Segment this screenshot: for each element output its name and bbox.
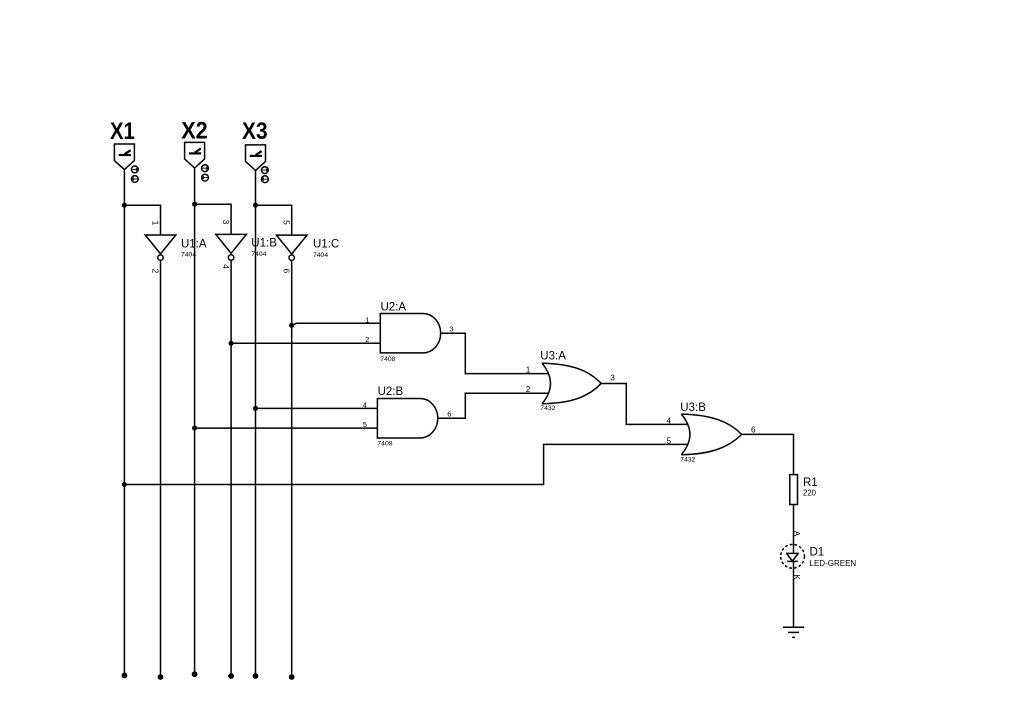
svg-text:A: A: [792, 531, 802, 537]
wire X2 to U2:B pin5: [195, 427, 378, 429]
node U1:B output bottom end: [228, 673, 234, 679]
pin 1 of U1:A: [150, 221, 160, 226]
svg-text:5: 5: [363, 420, 367, 429]
svg-text:U3:A: U3:A: [540, 350, 566, 362]
OR gate U3:B: [681, 414, 741, 455]
svg-text:R1: R1: [803, 477, 818, 489]
logic toggle X2 label: [181, 118, 208, 145]
svg-text:X1: X1: [110, 118, 135, 145]
node X3 branch to U1:C: [253, 203, 258, 208]
svg-text:7404: 7404: [181, 252, 196, 259]
wire U1:A output vertical: [160, 261, 162, 677]
svg-text:4: 4: [667, 417, 672, 426]
pin 6 of U1:C: [282, 269, 292, 274]
node U1:A output bottom end: [158, 674, 164, 680]
node X2 branch to U2:B pin5: [192, 426, 197, 431]
pin 5 of U3:B: [667, 437, 672, 446]
value 7432 of U3:A: [540, 405, 555, 412]
wire U3:A output to U3:B pin4: [601, 383, 688, 424]
svg-text:2: 2: [526, 385, 531, 394]
inverter U1:A: [145, 235, 176, 260]
toggle X2 down button: [202, 174, 209, 181]
node X2 bottom end: [192, 671, 198, 677]
wire R1 to D1: [793, 505, 795, 545]
svg-text:5: 5: [667, 437, 672, 446]
node X2 branch to U1:B: [192, 202, 197, 207]
svg-text:LED-GREEN: LED-GREEN: [810, 559, 857, 568]
svg-text:2: 2: [150, 269, 160, 274]
pin 2 of U3:A: [526, 385, 531, 394]
value 7404 of U1:B: [251, 251, 266, 258]
svg-text:2: 2: [365, 335, 369, 344]
svg-text:3: 3: [449, 324, 453, 333]
svg-text:6: 6: [447, 409, 451, 418]
svg-text:3: 3: [610, 374, 615, 383]
svg-text:D1: D1: [810, 547, 825, 559]
svg-text:X2: X2: [181, 118, 208, 145]
pin 3 of U1:B: [221, 220, 231, 225]
value 7404 of U1:C: [313, 252, 328, 259]
pin 1 of U3:A: [526, 365, 531, 374]
toggle X2 up button: [202, 165, 209, 172]
label U1:A: [181, 238, 207, 250]
value 7408 of U2:A: [380, 356, 395, 363]
svg-text:U2:B: U2:B: [378, 386, 404, 398]
svg-text:U2:A: U2:A: [381, 301, 407, 313]
label U2:B: [378, 386, 404, 398]
svg-text:220: 220: [803, 489, 817, 498]
wire X2 to U1:B input: [195, 204, 232, 234]
wire X1 to U1:A input: [124, 205, 160, 235]
node X3 branch to U2:B pin4: [253, 406, 258, 411]
wire U1:C output vertical: [291, 261, 293, 677]
svg-text:7408: 7408: [377, 440, 392, 447]
pin K label of D1: [792, 574, 802, 580]
svg-text:6: 6: [282, 269, 292, 274]
pin 4 of U2:B: [363, 401, 367, 410]
pin 4 of U1:B: [221, 264, 231, 269]
pin 6 of U3:B: [751, 425, 756, 434]
pin 2 of U1:A: [150, 269, 160, 274]
wire X3 vertical: [255, 171, 257, 677]
value 220 of R1: [803, 489, 817, 498]
logic toggle X1 symbol: [114, 144, 134, 170]
node U1:C output bottom end: [289, 674, 295, 680]
svg-text:6: 6: [751, 425, 756, 434]
pin 5 of U2:B: [363, 420, 367, 429]
resistor R1: [790, 475, 798, 505]
logic toggle X3 symbol: [246, 145, 266, 171]
wire X3 to U1:C input: [256, 205, 292, 235]
node X3 bottom end: [253, 673, 259, 679]
node junction on U1:B output for U2:A pin2: [229, 341, 234, 346]
svg-text:7404: 7404: [251, 251, 266, 258]
label R1: [803, 477, 818, 489]
wire U1:C output to U2:A pin1: [292, 323, 381, 325]
svg-text:7408: 7408: [380, 356, 395, 363]
node junction on U1:C output for U2:A pin1: [289, 323, 294, 328]
svg-text:U1:B: U1:B: [251, 237, 277, 249]
svg-text:1: 1: [365, 316, 369, 325]
label U1:C: [313, 238, 339, 250]
wire U2:A output to U3:A pin1: [441, 333, 549, 373]
toggle X1 down button: [131, 176, 138, 183]
pin 3 of U2:A: [449, 324, 453, 333]
wire X1 vertical: [123, 170, 125, 676]
toggle X3 up button: [262, 167, 269, 174]
logic toggle X3 label: [242, 118, 268, 145]
value LED-GREEN of D1: [810, 559, 857, 568]
svg-text:U1:C: U1:C: [313, 238, 339, 250]
node X1 branch to U3:B pin5 wire: [122, 482, 127, 487]
pin 5 of U1:C: [282, 220, 292, 225]
pin 3 of U3:A: [610, 374, 615, 383]
AND gate U2:B: [377, 399, 437, 438]
wire U1:B output vertical: [230, 261, 232, 676]
pin 1 of U2:A: [365, 316, 369, 325]
svg-text:U1:A: U1:A: [181, 238, 207, 250]
svg-text:5: 5: [282, 220, 292, 225]
svg-text:3: 3: [221, 220, 231, 225]
logic toggle X1 label: [110, 118, 135, 145]
svg-text:1: 1: [526, 365, 531, 374]
pin 4 of U3:B: [667, 417, 672, 426]
wire X1 to U3:B pin5: [124, 444, 688, 484]
svg-text:4: 4: [221, 264, 231, 269]
value 7408 of U2:B: [377, 440, 392, 447]
wire D1 to ground: [793, 568, 795, 627]
node X1 branch to U1:A: [122, 203, 127, 208]
pin 6 of U2:B: [447, 409, 451, 418]
svg-text:7404: 7404: [313, 252, 328, 259]
svg-text:4: 4: [363, 401, 367, 410]
label U3:B: [680, 402, 706, 414]
svg-text:1: 1: [150, 221, 160, 226]
label U2:A: [381, 301, 407, 313]
inverter U1:B: [216, 234, 247, 260]
wire U1:B output to U2:A pin2: [231, 342, 380, 344]
toggle X1 up button: [131, 166, 138, 173]
svg-text:7432: 7432: [540, 405, 555, 412]
OR gate U3:A: [542, 363, 601, 404]
wire X2 vertical: [194, 168, 196, 674]
label D1: [810, 547, 825, 559]
wire X3 to U2:B pin4: [256, 407, 378, 409]
AND gate U2:A: [380, 314, 440, 353]
pin A label of D1: [792, 531, 802, 537]
ground: [783, 627, 804, 637]
label U3:A: [540, 350, 566, 362]
inverter U1:C: [276, 235, 307, 260]
wire U3:B output to R1: [742, 434, 794, 474]
label U1:B: [251, 237, 277, 249]
value 7432 of U3:B: [680, 456, 695, 463]
pin 2 of U2:A: [365, 335, 369, 344]
toggle X3 down button: [262, 176, 269, 183]
wire U2:B output to U3:A pin2: [438, 393, 549, 418]
LED D1: [781, 544, 805, 568]
svg-text:U3:B: U3:B: [680, 402, 706, 414]
node X1 bottom end: [122, 673, 128, 679]
value 7404 of U1:A: [181, 252, 196, 259]
svg-text:X3: X3: [242, 118, 268, 145]
logic toggle X2 symbol: [185, 142, 205, 168]
svg-text:7432: 7432: [680, 456, 695, 463]
